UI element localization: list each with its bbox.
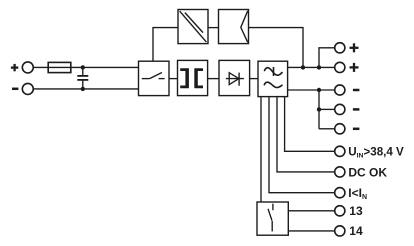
relay contact symbol <box>268 204 273 232</box>
transformer left winding <box>180 68 189 88</box>
wire DC OK <box>277 97 335 172</box>
wire diode to regulator <box>250 78 258 80</box>
terminal circle plus 1 <box>335 43 345 53</box>
wire T1 to T2 <box>208 27 219 29</box>
label + (input) <box>11 64 18 71</box>
top sine symbol <box>264 67 282 76</box>
terminal circle 14 <box>335 226 345 236</box>
bottom sine symbol <box>264 82 282 87</box>
wire plus bus <box>288 66 335 68</box>
terminal circle 13 <box>335 206 345 216</box>
wire to second minus terminal <box>319 108 335 110</box>
wire switch to transformer <box>169 78 178 80</box>
label plus 2 <box>350 63 359 72</box>
relay block K1 <box>257 202 288 235</box>
wire input minus line <box>33 88 138 90</box>
wire elbow to first plus terminal <box>319 48 335 68</box>
node minus mid junction <box>317 107 321 111</box>
node input plus junction <box>81 65 85 69</box>
transformer right winding <box>194 68 203 88</box>
svg-text:13: 13 <box>349 204 363 218</box>
wire relay to 13 <box>288 210 335 212</box>
terminal circle I less In <box>335 188 345 198</box>
node plus elbow junction <box>317 65 321 69</box>
label - (input) <box>12 88 18 91</box>
fuse F1 <box>48 62 71 72</box>
wire input plus line <box>33 66 138 68</box>
node input minus junction <box>81 87 85 91</box>
svg-text:DC OK: DC OK <box>348 166 387 180</box>
terminal circle DC OK <box>335 167 345 177</box>
svg-text:14: 14 <box>349 224 363 238</box>
terminal circle minus 1 <box>335 85 345 95</box>
wire T2 to plus bus <box>249 28 304 68</box>
regulator block U1 <box>258 61 288 96</box>
terminal circle input minus <box>22 83 33 94</box>
label minus 1 <box>353 89 360 92</box>
terminal circle plus 2 <box>335 62 345 72</box>
wire Uin sense <box>285 97 335 152</box>
diode block <box>219 60 250 95</box>
wire to third minus terminal <box>319 128 335 130</box>
wire to relay <box>260 97 262 202</box>
label plus 1 <box>350 43 359 52</box>
transformer T1 block <box>178 60 208 95</box>
diode D1 symbol <box>226 73 244 86</box>
block T1 DC converter (diagonal) <box>178 10 208 44</box>
terminal circle input plus <box>22 62 33 73</box>
node top branch junction <box>301 65 305 69</box>
terminal circle Uin <box>335 146 345 156</box>
terminal circle minus 2 <box>335 104 345 114</box>
capacitor C1 <box>77 67 88 89</box>
wire transformer to diode <box>208 78 219 80</box>
block T2 comparator (triangle) <box>219 10 249 44</box>
svg-text:UIN>38,4 V: UIN>38,4 V <box>348 145 404 159</box>
wire top branch from switch block to block T1 <box>153 28 178 62</box>
wire relay to 14 <box>288 230 335 232</box>
switch symbol inside S1 <box>142 73 165 79</box>
label minus 3 <box>353 128 360 131</box>
terminal circle minus 3 <box>335 124 345 134</box>
wire minus bus <box>288 89 335 91</box>
wire minus vertical <box>318 90 320 129</box>
node minus bus junction <box>317 88 321 92</box>
wire I less In <box>269 97 335 193</box>
switch block S1 <box>139 61 170 95</box>
label minus 2 <box>353 108 360 111</box>
diagonal lines inside T1 <box>180 11 207 42</box>
triangle inside T2 <box>241 11 248 42</box>
